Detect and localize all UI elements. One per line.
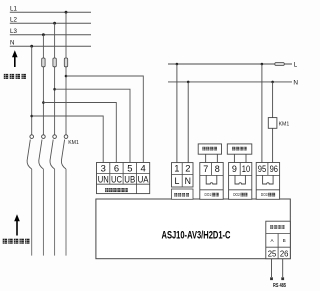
wire pole1 lower — [31, 169, 33, 256]
wire RS485 B stub — [282, 259, 284, 277]
terminal 5 (UB) — [124, 162, 135, 184]
device ASJ10 main box — [96, 199, 290, 259]
svg-text:5: 5 — [127, 162, 132, 173]
svg-text:N: N — [293, 79, 298, 86]
box alarm-output 2 (CJK) — [227, 144, 252, 154]
wire N to KM1 coil — [272, 82, 274, 118]
svg-text:4: 4 — [140, 162, 145, 173]
contactor KM1 pole4 blade — [61, 140, 66, 169]
wire pole3 drop — [54, 23, 56, 135]
svg-text:3: 3 — [101, 162, 106, 173]
label voltage-signal-input (CJK) — [105, 188, 128, 192]
svg-text:95: 95 — [258, 164, 266, 174]
svg-text:2: 2 — [185, 162, 190, 173]
wire pole3 lower — [54, 169, 56, 256]
label comm-interface header (CJK) — [270, 225, 284, 228]
wire aux L line — [168, 63, 292, 65]
fuse FU3 pole4 — [64, 58, 67, 67]
label aux-power box (CJK) — [172, 189, 194, 199]
arrow low-voltage grid — [12, 50, 18, 67]
svg-text:L: L — [294, 61, 298, 68]
terminal block voltage-input outline — [97, 163, 150, 194]
svg-text:DO1: DO1 — [205, 192, 212, 197]
terminal 4 (UA) — [138, 162, 149, 184]
label DO1 output (CJK) — [205, 192, 219, 197]
terminal 3 (UN) — [98, 162, 109, 184]
wire bus L2 — [10, 22, 91, 24]
svg-text:N: N — [10, 40, 14, 47]
wire terminal1 up — [176, 64, 178, 163]
node RS485 B end — [281, 277, 284, 280]
wire tap2 to terminal — [55, 89, 130, 162]
contactor KM1 pole4 contact circle — [64, 135, 68, 139]
fuse FU aux L — [275, 63, 285, 66]
junction node N-coil — [271, 81, 274, 84]
svg-text:6: 6 — [114, 162, 119, 173]
wire terminal2 up — [187, 82, 189, 163]
junction node terminal2-N — [187, 81, 190, 84]
fuse FU1 pole2 — [42, 58, 45, 67]
coil KM1 — [268, 118, 277, 129]
relay contact DO3 — [263, 175, 274, 184]
relay contact DO2 — [235, 175, 245, 184]
box alarm-output 1 (CJK) — [198, 144, 221, 154]
wire tap3 to terminal — [43, 103, 116, 163]
wire alarm2 stub2 — [245, 154, 247, 162]
terminal block DO3 outline — [256, 163, 279, 200]
fuse FU2 pole3 — [53, 58, 56, 67]
wire KM1 coil to terminal96 — [272, 128, 274, 162]
wire tap1 to terminal — [66, 76, 143, 163]
contactor KM1 pole3 contact circle — [53, 135, 57, 139]
svg-text:N: N — [185, 176, 191, 186]
svg-text:L2: L2 — [10, 17, 17, 24]
junction node tap2 — [53, 88, 56, 91]
wire bus L1 — [10, 11, 91, 13]
svg-text:8: 8 — [215, 164, 220, 174]
junction node bus-pole4 — [65, 11, 68, 14]
junction node bus-pole1 — [30, 45, 33, 48]
label DO2 output (CJK) — [233, 192, 247, 197]
wire bus L3 — [10, 34, 91, 36]
relay contact DO1 — [206, 175, 217, 184]
svg-text:DO2: DO2 — [233, 192, 240, 197]
wire pole4 lower — [65, 169, 67, 256]
wire pole4 drop — [65, 12, 67, 135]
wire tap4 to terminal — [32, 116, 104, 163]
junction node L-95 — [261, 63, 264, 66]
svg-text:KM1: KM1 — [279, 122, 290, 128]
contactor KM1 pole1 blade — [27, 140, 32, 169]
junction node tap4 — [30, 115, 33, 118]
contactor KM1 pole3 blade — [50, 140, 55, 169]
box comm-interface outline — [266, 221, 291, 259]
svg-text:L: L — [174, 176, 179, 186]
wire pole1 drop — [31, 46, 33, 135]
terminal block DO2 outline — [229, 163, 252, 200]
wire alarm2 stub1 — [233, 154, 235, 162]
svg-text:L3: L3 — [10, 28, 17, 35]
label DO3 output (CJK) — [261, 192, 275, 197]
svg-text:RS 485: RS 485 — [273, 283, 286, 289]
svg-text:B: B — [283, 238, 286, 243]
terminal block DO1 outline — [200, 163, 223, 200]
junction node terminal1-L — [176, 63, 179, 66]
svg-text:UC: UC — [111, 174, 122, 184]
svg-text:25: 25 — [268, 249, 277, 259]
wire alarm1 stub2 — [216, 154, 218, 162]
svg-text:ASJ10-AV3/H2D1-C: ASJ10-AV3/H2D1-C — [162, 230, 231, 242]
svg-text:KM1: KM1 — [68, 140, 79, 146]
terminal 1 (L) — [174, 162, 179, 185]
wire L to terminal95 — [261, 64, 263, 163]
svg-text:DO3: DO3 — [261, 192, 268, 197]
wire pole2 lower — [42, 169, 44, 256]
wire RS485 A stub — [271, 259, 273, 277]
svg-text:26: 26 — [280, 249, 289, 259]
wire alarm1 stub1 — [205, 154, 207, 162]
junction node bus-pole2 — [42, 33, 45, 36]
terminal 6 (UC) — [111, 162, 122, 184]
svg-text:UB: UB — [124, 174, 135, 184]
svg-text:1: 1 — [174, 162, 179, 173]
wire bus N — [10, 45, 91, 47]
caption low-voltage-grid (CJK) — [4, 74, 26, 79]
svg-text:UA: UA — [138, 174, 149, 184]
junction node tap3 — [42, 101, 45, 104]
terminal 2 (N) — [185, 162, 191, 185]
junction node tap1 — [65, 75, 68, 78]
svg-text:L1: L1 — [10, 6, 17, 13]
contactor KM1 pole2 contact circle — [42, 135, 46, 139]
wire pole2 drop — [42, 35, 44, 135]
node RS485 A end — [270, 277, 273, 280]
terminal block aux-power outline — [172, 163, 194, 187]
svg-text:UN: UN — [98, 174, 109, 184]
arrow solar cable — [14, 214, 20, 235]
junction node bus-pole3 — [53, 22, 56, 25]
contactor KM1 pole1 contact circle — [30, 135, 34, 139]
svg-text:96: 96 — [270, 164, 278, 174]
svg-text:10: 10 — [242, 164, 250, 174]
caption solar-cable (CJK) — [3, 239, 30, 244]
contactor KM1 pole2 blade — [39, 140, 44, 169]
svg-text:7: 7 — [203, 164, 208, 174]
svg-text:9: 9 — [232, 164, 237, 174]
wire aux N line — [168, 81, 292, 83]
